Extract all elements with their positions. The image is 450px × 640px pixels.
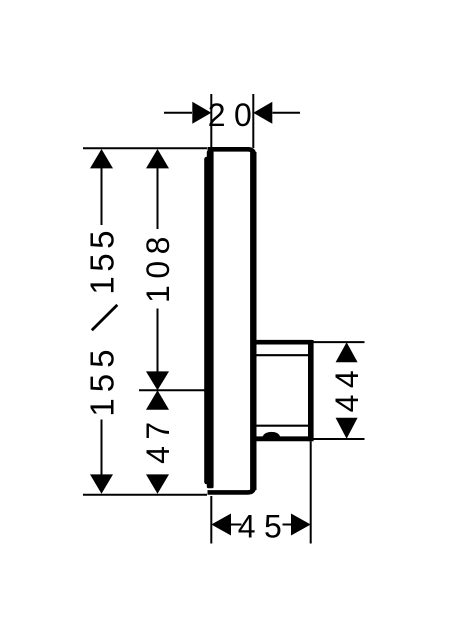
svg-text:155: 155 (84, 226, 121, 295)
svg-text:108: 108 (140, 230, 176, 303)
svg-text:155: 155 (84, 344, 121, 417)
svg-text:45: 45 (238, 508, 291, 544)
svg-text:47: 47 (140, 415, 176, 464)
svg-text:44: 44 (329, 364, 365, 413)
svg-text:20: 20 (208, 97, 261, 133)
